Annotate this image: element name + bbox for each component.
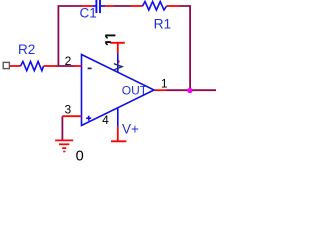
svg-text:V+: V+ [122, 121, 139, 136]
svg-text:OUT: OUT [122, 83, 148, 97]
svg-text:1: 1 [161, 76, 168, 90]
svg-text:4: 4 [102, 113, 109, 127]
svg-text:3: 3 [65, 102, 72, 116]
svg-text:R2: R2 [18, 42, 35, 57]
svg-text:2: 2 [65, 54, 72, 68]
svg-text:0: 0 [76, 148, 84, 163]
svg-text:R1: R1 [154, 16, 172, 31]
svg-text:C1: C1 [80, 6, 97, 21]
